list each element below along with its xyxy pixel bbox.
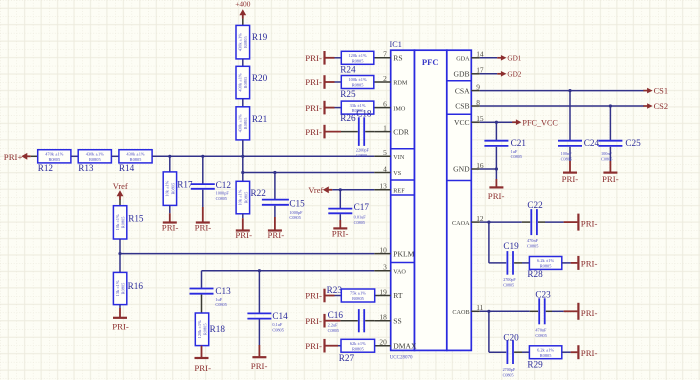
capacitor C19 bbox=[507, 251, 513, 275]
svg-text:C12: C12 bbox=[216, 180, 232, 190]
svg-text:PRI-: PRI- bbox=[305, 127, 322, 137]
C19 designator and value bbox=[503, 241, 519, 288]
port CS1 bbox=[643, 87, 668, 96]
pin 10 (PKLM) bbox=[374, 245, 414, 258]
wire C15 to ground bbox=[274, 206, 276, 217]
C17 designator and value bbox=[354, 202, 370, 225]
capacitor C15 bbox=[262, 200, 289, 205]
svg-text:GDB: GDB bbox=[454, 70, 470, 79]
svg-text:R26: R26 bbox=[340, 113, 356, 123]
svg-text:C0805: C0805 bbox=[328, 328, 339, 333]
svg-text:PRI-: PRI- bbox=[305, 53, 322, 63]
resistor R24 bbox=[340, 51, 374, 74]
C14 designator and value bbox=[272, 311, 288, 333]
svg-text:100k ±1%: 100k ±1% bbox=[348, 77, 366, 82]
wire C16 to pin 18 bbox=[365, 320, 374, 322]
wire VIN node to R17 bbox=[169, 156, 171, 172]
wire R19-R20 bbox=[242, 59, 244, 66]
svg-text:C23: C23 bbox=[535, 290, 551, 300]
svg-text:VS: VS bbox=[393, 170, 401, 177]
svg-text:DMAX: DMAX bbox=[393, 341, 417, 350]
svg-text:R0805: R0805 bbox=[243, 76, 248, 89]
power ground PRI- feeding R24 bbox=[305, 51, 324, 65]
svg-text:6.2k ±1%: 6.2k ±1% bbox=[537, 347, 554, 352]
wire R21 down to VIN/VS node bbox=[242, 140, 244, 181]
wire CAOA node down to R28 row bbox=[488, 222, 490, 263]
wire PRI- to R25 bbox=[325, 81, 335, 83]
pin 2 (RDM) bbox=[374, 74, 408, 87]
port PFC_VCC bbox=[512, 118, 558, 127]
power ground PRI- right of R29 bbox=[578, 345, 597, 359]
capacitor C14 bbox=[247, 313, 271, 318]
resistor R14 bbox=[119, 150, 152, 173]
pin 20 (DMAX) bbox=[374, 338, 417, 351]
svg-text:C0805: C0805 bbox=[503, 283, 514, 288]
C21 designator and value bbox=[511, 138, 527, 159]
wire C13 to R18 bbox=[201, 295, 203, 313]
power port Vref at REF pin bbox=[308, 186, 323, 195]
svg-text:R0805: R0805 bbox=[352, 83, 365, 88]
svg-text:PRI-: PRI- bbox=[305, 103, 322, 113]
pin 1 (CDR) bbox=[374, 123, 410, 136]
power ground PRI- under C17 bbox=[332, 228, 349, 238]
resistor R12 bbox=[38, 150, 71, 173]
wire PRI- to R27 bbox=[325, 345, 339, 347]
svg-text:R0805: R0805 bbox=[243, 35, 248, 48]
wire R12-R13 bbox=[71, 155, 78, 157]
arrow of Vref port above R15 bbox=[117, 190, 124, 200]
wire C15 to VS net bbox=[274, 173, 276, 200]
svg-text:PRI-: PRI- bbox=[194, 363, 211, 373]
svg-text:0.01uF: 0.01uF bbox=[354, 214, 367, 219]
power ground PRI- under C15 bbox=[268, 230, 285, 240]
svg-text:C0805: C0805 bbox=[272, 328, 283, 333]
svg-text:R0805: R0805 bbox=[352, 296, 365, 301]
svg-text:R0805: R0805 bbox=[202, 323, 207, 336]
svg-text:PRI-: PRI- bbox=[581, 308, 598, 318]
svg-text:R0805: R0805 bbox=[243, 117, 248, 130]
svg-text:PRI-: PRI- bbox=[581, 348, 598, 358]
wire VAO down to C13 bbox=[201, 271, 203, 288]
svg-text:62k ±1%: 62k ±1% bbox=[350, 341, 366, 346]
power port Vref above R15 bbox=[113, 182, 128, 191]
svg-text:C0805: C0805 bbox=[511, 154, 522, 159]
svg-text:R12: R12 bbox=[38, 163, 54, 173]
C20 designator and value bbox=[503, 333, 520, 378]
arrow of PRI+ port bbox=[21, 153, 31, 160]
svg-text:C0805: C0805 bbox=[215, 302, 226, 307]
wire VS net: node to pin 4 bbox=[243, 172, 374, 174]
resistor R28 bbox=[527, 257, 561, 279]
pin 13 (REF) bbox=[374, 182, 405, 195]
svg-text:R15: R15 bbox=[128, 213, 144, 223]
svg-text:R19: R19 bbox=[252, 32, 268, 42]
C12 designator and value bbox=[216, 180, 232, 201]
svg-text:C21: C21 bbox=[511, 138, 527, 148]
svg-text:CSB: CSB bbox=[455, 102, 469, 111]
svg-text:2700pF: 2700pF bbox=[503, 277, 516, 282]
capacitor C23 bbox=[539, 298, 545, 324]
svg-text:R29: R29 bbox=[527, 360, 543, 370]
svg-text:R0805: R0805 bbox=[121, 216, 126, 229]
wire GND pin to node bbox=[480, 168, 497, 170]
pin 18 (SS) bbox=[374, 313, 402, 326]
svg-text:R22: R22 bbox=[251, 188, 267, 198]
svg-text:R0805: R0805 bbox=[48, 157, 61, 162]
op-amp / PFC controller IC1 (UCC28070) body bbox=[391, 50, 472, 350]
wire R17 to ground bbox=[169, 205, 171, 213]
wire PRI- to R24 bbox=[325, 57, 335, 59]
svg-text:Vref: Vref bbox=[113, 182, 128, 191]
pin 3 (VAO) bbox=[374, 263, 406, 276]
svg-text:IC1: IC1 bbox=[390, 40, 402, 49]
wire PRI+ to R12 bbox=[31, 155, 38, 157]
svg-text:75k ±1%: 75k ±1% bbox=[350, 291, 366, 296]
svg-text:GD1: GD1 bbox=[507, 55, 521, 63]
svg-text:R0805: R0805 bbox=[170, 182, 175, 195]
wire +400 to R19 bbox=[242, 19, 244, 26]
power ground PRI- feeding C16 bbox=[305, 314, 324, 328]
wire VCC to PFC_VCC port bbox=[480, 121, 514, 123]
capacitor C16 bbox=[359, 309, 364, 332]
svg-text:CS1: CS1 bbox=[654, 87, 668, 96]
wire C25 to CSB net bbox=[609, 106, 611, 140]
svg-text:PRI-: PRI- bbox=[268, 230, 285, 240]
svg-text:CAOA: CAOA bbox=[452, 220, 470, 227]
junction CSB / C25 bbox=[609, 104, 612, 107]
resistor R19 bbox=[236, 25, 268, 59]
svg-text:1: 1 bbox=[383, 123, 387, 132]
C23 designator and value bbox=[535, 290, 551, 338]
svg-text:430k ±1%: 430k ±1% bbox=[126, 152, 144, 157]
svg-text:REF: REF bbox=[393, 188, 405, 195]
svg-text:5: 5 bbox=[383, 148, 387, 157]
junction CAOA node bbox=[487, 221, 490, 224]
svg-text:R0805: R0805 bbox=[121, 282, 126, 295]
pin 12 (CAOA) bbox=[452, 214, 484, 227]
svg-text:CAOB: CAOB bbox=[452, 309, 469, 316]
wire CAOA to C22 bbox=[480, 221, 522, 223]
wire PKLM net to pin 10 bbox=[120, 253, 374, 255]
svg-text:C13: C13 bbox=[215, 286, 231, 296]
pin 9 (CSA) bbox=[455, 82, 480, 95]
svg-text:R14: R14 bbox=[119, 163, 135, 173]
svg-text:430k ±1%: 430k ±1% bbox=[86, 152, 104, 157]
power ground PRI- under R18 bbox=[194, 358, 211, 373]
svg-text:PRI-: PRI- bbox=[581, 258, 598, 268]
svg-text:2.2uF: 2.2uF bbox=[328, 323, 339, 328]
pin 8 (CSB) bbox=[455, 98, 480, 111]
junction VCC / C21 bbox=[495, 121, 498, 124]
resistor R17 bbox=[163, 172, 193, 206]
C22 designator and value bbox=[527, 200, 543, 248]
wire CSA to CS1 port bbox=[480, 90, 644, 92]
wire Vref to pin 13 bbox=[332, 189, 374, 191]
svg-text:3: 3 bbox=[383, 263, 387, 272]
svg-text:CS2: CS2 bbox=[654, 102, 668, 111]
svg-text:6: 6 bbox=[383, 99, 387, 108]
svg-text:R18: R18 bbox=[210, 324, 226, 334]
resistor R15 bbox=[113, 206, 144, 239]
wire R15 to PKLM node bbox=[119, 239, 121, 254]
wire C24 to ground bbox=[569, 147, 571, 161]
svg-text:Vref: Vref bbox=[308, 186, 323, 195]
svg-text:1000pF: 1000pF bbox=[216, 191, 230, 196]
pin 11 (CAOB) bbox=[452, 303, 483, 316]
svg-text:RDM: RDM bbox=[393, 80, 408, 87]
junction at R17 tap bbox=[168, 155, 171, 158]
svg-text:9: 9 bbox=[476, 82, 480, 91]
wire C14 to VAO net bbox=[258, 271, 260, 313]
wire VIN net: R14 to pin 5 bbox=[152, 155, 374, 157]
svg-text:10k ±1%: 10k ±1% bbox=[165, 180, 170, 196]
resistor R27 bbox=[339, 339, 375, 363]
power ground PRI- under R17 bbox=[162, 222, 179, 232]
svg-text:10k ±1%: 10k ±1% bbox=[238, 189, 243, 205]
wire to C19 bbox=[489, 262, 506, 264]
svg-text:UCC28070: UCC28070 bbox=[390, 356, 413, 361]
svg-text:C22: C22 bbox=[527, 200, 543, 210]
svg-text:120k ±1%: 120k ±1% bbox=[197, 320, 202, 338]
svg-text:PRI-: PRI- bbox=[305, 316, 322, 326]
wire R29 to PRI- bbox=[562, 351, 571, 353]
svg-text:18: 18 bbox=[379, 313, 387, 322]
junction CAOB node bbox=[487, 310, 490, 313]
wire R18 to ground bbox=[201, 346, 203, 358]
svg-text:PRI-: PRI- bbox=[562, 174, 579, 184]
wire PRI- to R26 bbox=[325, 107, 335, 109]
junction CSA / C24 bbox=[568, 89, 571, 92]
wire GDA to GD1 port bbox=[480, 57, 497, 59]
pin 14 (GDA) bbox=[456, 50, 484, 63]
svg-text:R0805: R0805 bbox=[540, 264, 553, 269]
power ground PRI- right of R28 bbox=[578, 256, 597, 270]
svg-text:PRI-: PRI- bbox=[305, 291, 322, 301]
svg-text:R27: R27 bbox=[339, 353, 355, 363]
wire C21 down to GND node bbox=[495, 147, 497, 169]
svg-text:430k ±1%: 430k ±1% bbox=[238, 73, 243, 91]
svg-text:C19: C19 bbox=[503, 241, 519, 251]
resistor R26 bbox=[340, 101, 374, 123]
svg-text:R28: R28 bbox=[527, 269, 543, 279]
svg-text:2: 2 bbox=[383, 74, 387, 83]
svg-text:470nF: 470nF bbox=[527, 238, 539, 243]
capacitor C18 bbox=[359, 117, 364, 146]
wire C20 to R29 bbox=[514, 351, 522, 353]
svg-text:PFC_VCC: PFC_VCC bbox=[522, 118, 558, 127]
power ground PRI- feeding R27 bbox=[305, 339, 324, 353]
svg-text:4: 4 bbox=[383, 164, 387, 173]
pin 19 (RT) bbox=[374, 287, 403, 300]
pin 6 (IMO) bbox=[374, 99, 406, 112]
C24 designator and value bbox=[561, 138, 600, 162]
wire pin stub of C22 bbox=[522, 221, 530, 223]
port GD1 bbox=[497, 55, 522, 63]
svg-text:1uF: 1uF bbox=[511, 149, 518, 154]
svg-text:C0805: C0805 bbox=[216, 196, 227, 201]
junction at R21/R22 tap bbox=[241, 155, 244, 158]
junction VAO at C14 tap bbox=[258, 269, 261, 272]
junction REF at C17 tap bbox=[339, 188, 342, 191]
power ground PRI- feeding R25 bbox=[305, 75, 324, 89]
wire C17 to REF net bbox=[339, 190, 341, 208]
resistor R23 bbox=[341, 289, 374, 302]
wire VAO net: C13 corner to pin 3 bbox=[202, 270, 375, 272]
wire C14 to ground bbox=[258, 320, 260, 346]
power ground PRI- under C21/GND bbox=[488, 187, 505, 200]
svg-text:430k ±1%: 430k ±1% bbox=[238, 114, 243, 132]
svg-text:13k ±1%: 13k ±1% bbox=[115, 280, 120, 296]
svg-text:10: 10 bbox=[379, 245, 387, 254]
svg-text:SS: SS bbox=[393, 316, 401, 325]
svg-text:GND: GND bbox=[453, 165, 470, 174]
svg-text:33k ±1%: 33k ±1% bbox=[350, 103, 366, 108]
svg-text:C15: C15 bbox=[289, 198, 305, 208]
wire PRI- to R23 bbox=[325, 295, 335, 297]
svg-text:2200pF: 2200pF bbox=[356, 148, 370, 153]
svg-text:C24: C24 bbox=[584, 138, 600, 148]
wire pin stub of C23 bbox=[530, 310, 538, 312]
svg-text:C0805: C0805 bbox=[354, 220, 365, 225]
resistor R22 bbox=[236, 181, 266, 214]
svg-text:GD2: GD2 bbox=[507, 71, 521, 79]
wire R22 to ground bbox=[242, 214, 244, 218]
capacitor C22 bbox=[531, 209, 537, 235]
svg-text:2700pF: 2700pF bbox=[503, 367, 516, 372]
svg-text:7: 7 bbox=[383, 50, 387, 59]
power ground PRI- under C12 bbox=[195, 222, 212, 232]
svg-text:C0805: C0805 bbox=[289, 215, 300, 220]
wire PRI- to C16 bbox=[325, 320, 341, 322]
power ground PRI- feeding C18 bbox=[305, 125, 324, 139]
capacitor C20 bbox=[507, 340, 513, 364]
svg-text:R0805: R0805 bbox=[352, 346, 365, 351]
resistor R29 bbox=[527, 346, 561, 370]
wire C24 to CSA net bbox=[569, 91, 571, 141]
capacitor C24 bbox=[558, 141, 582, 146]
svg-text:PRI-: PRI- bbox=[581, 219, 598, 229]
capacitor C13 bbox=[190, 289, 214, 294]
wire C25 to ground bbox=[609, 147, 611, 161]
svg-text:PRI-: PRI- bbox=[195, 222, 212, 232]
C25 designator and value bbox=[601, 138, 641, 162]
resistor R25 bbox=[340, 76, 374, 99]
resistor R18 bbox=[195, 313, 225, 346]
pin 16 (GND) bbox=[453, 161, 484, 174]
svg-text:RS: RS bbox=[393, 54, 402, 63]
svg-text:430k ±1%: 430k ±1% bbox=[238, 33, 243, 51]
power ground PRI- under C25 bbox=[602, 173, 619, 184]
svg-text:R20: R20 bbox=[252, 73, 268, 83]
svg-text:C0805: C0805 bbox=[356, 153, 367, 158]
power ground PRI- right of C22 bbox=[578, 214, 597, 231]
junction GND / C21 bbox=[495, 167, 498, 170]
svg-text:R17: R17 bbox=[177, 179, 193, 189]
svg-text:C17: C17 bbox=[354, 202, 370, 212]
junction PKLM node bbox=[118, 252, 121, 255]
svg-text:20: 20 bbox=[379, 338, 387, 347]
svg-text:PRI-: PRI- bbox=[488, 191, 505, 201]
svg-text:PKLM: PKLM bbox=[393, 249, 414, 258]
svg-text:PRI-: PRI- bbox=[602, 174, 619, 184]
port GD2 bbox=[497, 71, 522, 79]
wire C18 to pin 1 bbox=[365, 131, 374, 133]
svg-text:CSA: CSA bbox=[455, 86, 470, 95]
svg-text:PRI-: PRI- bbox=[251, 361, 268, 371]
svg-text:PRI-: PRI- bbox=[305, 77, 322, 87]
junction VS at C15 tap bbox=[273, 171, 276, 174]
svg-text:120k ±1%: 120k ±1% bbox=[348, 53, 366, 58]
wire C17 to ground bbox=[339, 214, 341, 220]
svg-text:PRI-: PRI- bbox=[112, 322, 129, 332]
wire R20-R21 bbox=[242, 99, 244, 107]
wire C12 to ground bbox=[202, 190, 204, 207]
svg-text:470k ±1%: 470k ±1% bbox=[45, 152, 63, 157]
svg-text:CDR: CDR bbox=[393, 127, 410, 136]
svg-text:C0805: C0805 bbox=[527, 243, 538, 248]
svg-text:RT: RT bbox=[393, 291, 403, 300]
svg-text:PFC: PFC bbox=[422, 57, 439, 67]
port CS2 bbox=[643, 102, 668, 111]
svg-text:GDA: GDA bbox=[456, 56, 470, 63]
svg-text:PRI+: PRI+ bbox=[4, 152, 23, 162]
C15 designator and value bbox=[289, 198, 305, 220]
wire CAOB node down to R29 row bbox=[488, 311, 490, 352]
power ground PRI- under R22 bbox=[235, 230, 252, 240]
arrow of +400 port bbox=[239, 9, 246, 19]
svg-text:1000pF: 1000pF bbox=[289, 210, 303, 215]
svg-text:470nF: 470nF bbox=[535, 328, 547, 333]
pin 15 (VCC) bbox=[454, 114, 484, 127]
svg-text:R24: R24 bbox=[340, 65, 356, 75]
wire VCC node down to C21 bbox=[495, 122, 497, 140]
wire C23 to PRI- bbox=[546, 310, 552, 312]
svg-text:C14: C14 bbox=[272, 311, 288, 321]
wire PKLM node down to R16 bbox=[119, 254, 121, 273]
resistor R20 bbox=[236, 66, 268, 98]
power ground PRI- feeding R23 bbox=[305, 289, 324, 303]
svg-text:19: 19 bbox=[379, 287, 387, 296]
svg-text:R0805: R0805 bbox=[243, 191, 248, 204]
wire VIN node to C12 bbox=[202, 156, 204, 183]
svg-text:C16: C16 bbox=[328, 310, 344, 320]
wire GND node to ground symbol bbox=[495, 169, 497, 179]
capacitor C17 bbox=[328, 209, 352, 214]
wire R28 to PRI- bbox=[562, 262, 571, 264]
power ground PRI- right of C23 bbox=[578, 303, 597, 320]
svg-text:R21: R21 bbox=[252, 114, 268, 124]
C13 designator and value bbox=[215, 286, 231, 307]
wire R13-R14 bbox=[111, 155, 119, 157]
svg-text:PRI-: PRI- bbox=[305, 341, 322, 351]
svg-text:VAO: VAO bbox=[393, 268, 406, 275]
wire PRI- to C18 bbox=[325, 131, 342, 133]
wire C19 to R28 bbox=[514, 262, 522, 264]
wire CSB to CS2 port bbox=[480, 105, 644, 107]
svg-text:+400: +400 bbox=[235, 0, 251, 9]
svg-text:R0805: R0805 bbox=[130, 157, 143, 162]
svg-text:10k ±1%: 10k ±1% bbox=[115, 214, 120, 230]
svg-text:R0805: R0805 bbox=[540, 353, 553, 358]
power ground PRI- under R16 bbox=[112, 318, 129, 332]
capacitor C21 bbox=[484, 141, 508, 146]
svg-text:R13: R13 bbox=[78, 163, 94, 173]
svg-text:6.2k ±1%: 6.2k ±1% bbox=[537, 258, 554, 263]
svg-text:1uF: 1uF bbox=[215, 297, 222, 302]
power port +400 bbox=[235, 0, 251, 9]
svg-text:IMO: IMO bbox=[393, 105, 406, 112]
pin 7 (RS) bbox=[374, 50, 402, 63]
